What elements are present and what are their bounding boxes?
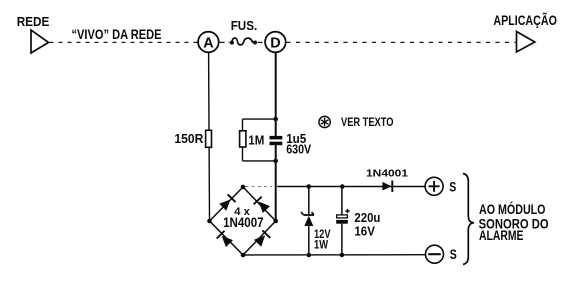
svg-text:A: A bbox=[203, 35, 214, 51]
svg-text:REDE: REDE bbox=[17, 14, 50, 29]
bridge diode bottom-right bbox=[254, 230, 270, 246]
wire positive rail to diode 1N4001 bbox=[277, 186, 425, 188]
bridge diode top-left bbox=[219, 194, 235, 210]
bridge diode top-right bbox=[254, 197, 270, 213]
svg-text:APLICAÇÃO: APLICAÇÃO bbox=[493, 13, 557, 28]
junction dot bridge top vertex bbox=[241, 185, 246, 190]
wire negative rail bbox=[243, 254, 426, 256]
wire dash between node A and fuse bbox=[220, 41, 230, 43]
svg-text:150R: 150R bbox=[174, 131, 203, 146]
wire 1M branch bottom bbox=[243, 160, 276, 162]
fuse F1 bbox=[230, 38, 257, 45]
svg-text:630V: 630V bbox=[286, 141, 311, 156]
junction dot zener bottom bbox=[307, 253, 312, 258]
junction dot top of 1M branch bbox=[273, 117, 278, 122]
zener diode 12V 1W bbox=[301, 212, 314, 226]
wire 1M branch left lower bbox=[242, 147, 244, 161]
svg-text:1W: 1W bbox=[314, 238, 328, 252]
svg-text:D: D bbox=[270, 35, 280, 51]
terminal +S bbox=[425, 177, 443, 195]
wire faint dashed from bridge top vertex crossing D line bbox=[246, 186, 273, 188]
symbol asterisk-in-circle (see text) bbox=[319, 116, 330, 127]
svg-text:ALARME: ALARME bbox=[479, 228, 524, 243]
wire dashed from REDE arrow to node A bbox=[50, 41, 198, 43]
svg-text:1N4001: 1N4001 bbox=[366, 168, 408, 179]
zener diode 12V 1W branch wire upper bbox=[308, 188, 310, 215]
svg-text:AO MÓDULO: AO MÓDULO bbox=[479, 202, 546, 217]
diode 1N4001 bbox=[382, 181, 392, 193]
svg-text:S: S bbox=[450, 247, 457, 262]
wire node D line below capacitor to bridge right vertex bbox=[275, 145, 277, 221]
bridge rectifier 4 x 1N4007 : diamond bbox=[210, 187, 276, 255]
svg-text:1N4007: 1N4007 bbox=[223, 215, 264, 230]
junction dot bridge right vertex bbox=[273, 219, 278, 224]
wire dash between fuse and node D bbox=[258, 41, 266, 43]
wire node A down to bridge left vertex bbox=[208, 52, 211, 221]
junction dot cap 220u top bbox=[340, 184, 345, 189]
wire 1M branch top bbox=[243, 118, 276, 120]
terminal arrow REDE bbox=[31, 30, 49, 53]
bridge diode bottom-left bbox=[217, 231, 233, 247]
svg-text:16V: 16V bbox=[354, 223, 375, 238]
capacitor 220u 16V electrolytic bbox=[336, 209, 349, 224]
svg-text:FUS.: FUS. bbox=[231, 19, 258, 33]
capacitor C 1u5 630V bbox=[270, 136, 283, 145]
brace grouping outputs bbox=[463, 174, 474, 265]
svg-text:S: S bbox=[449, 179, 456, 194]
terminal -S bbox=[426, 245, 444, 263]
node D bbox=[265, 32, 286, 53]
junction dot bottom of 1M branch bbox=[273, 159, 278, 164]
terminal arrow APLICACAO bbox=[517, 32, 535, 53]
zener branch wire lower bbox=[308, 226, 310, 255]
wire dashed from node D to APLICACAO arrow bbox=[286, 41, 516, 43]
capacitor 220u branch wire lower bbox=[341, 224, 343, 255]
svg-text:“VIVO” DA REDE: “VIVO” DA REDE bbox=[72, 27, 162, 42]
junction dot bridge bottom vertex bbox=[241, 253, 246, 258]
capacitor 220u branch wire upper bbox=[341, 188, 343, 216]
node A bbox=[198, 32, 219, 53]
junction dot cap 220u bottom bbox=[340, 253, 345, 258]
wire node D down (above capacitor plates) bbox=[275, 52, 277, 136]
junction dot bridge left vertex bbox=[207, 219, 212, 224]
junction dot zener top bbox=[307, 184, 312, 189]
svg-text:VER TEXTO: VER TEXTO bbox=[341, 115, 394, 129]
resistor R 1M bbox=[240, 131, 246, 147]
wire 1M branch left upper bbox=[242, 119, 244, 131]
svg-text:1M: 1M bbox=[248, 132, 264, 147]
resistor 150R bbox=[206, 130, 212, 147]
